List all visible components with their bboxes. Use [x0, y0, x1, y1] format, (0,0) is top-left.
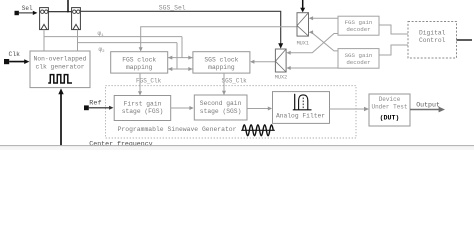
block Second gain stage (SGS): [194, 95, 247, 120]
svg-text:Second gain: Second gain: [200, 100, 242, 107]
svg-text:clk generator: clk generator: [35, 63, 84, 70]
bottom separator line: [0, 146, 474, 150]
wire phi2 to both mapping boxes (arrows both ends): [168, 67, 193, 71]
node Clk input terminal: [4, 51, 20, 64]
svg-text:Ref: Ref: [89, 100, 101, 108]
wire FGS decoder lower output crossing down to MUX2 top input: [286, 34, 338, 55]
svg-text:First gain: First gain: [124, 101, 162, 108]
flip-flop DFF1: [40, 8, 49, 30]
svg-text:SGS gain: SGS gain: [345, 52, 373, 59]
svg-text:decoder: decoder: [346, 26, 370, 33]
wire FGS decoder to MUX1 top input: [309, 16, 338, 20]
node Output: [410, 102, 445, 113]
wire FGS decoder to Digital Control: [379, 25, 408, 34]
svg-text:FGS gain: FGS gain: [345, 19, 373, 26]
wire FGS_Clk to first gain stage: [138, 73, 142, 96]
node Ref input terminal: [84, 100, 102, 111]
wire phi1 vertical from generator to DFF1 clock: [43, 30, 45, 51]
svg-text:MUX1: MUX1: [297, 41, 309, 47]
svg-text:SGS clock: SGS clock: [204, 57, 238, 64]
mux MUX2: [275, 49, 287, 80]
wire first to second gain stage: [171, 106, 194, 110]
svg-text:mapping: mapping: [126, 64, 153, 71]
block SGS clock mapping: [193, 52, 250, 73]
svg-text:Analog Filter: Analog Filter: [276, 113, 325, 120]
wire phi2 vertical from generator to DFF2 clock: [77, 30, 79, 51]
block Digital Control (dashed): [408, 22, 457, 59]
svg-text:stage (FGS): stage (FGS): [122, 108, 164, 115]
wire Sel to DFF1 with arrow: [19, 11, 38, 15]
block SGS gain decoder: [338, 49, 379, 69]
wire Clk to generator with arrow: [9, 59, 29, 64]
wire SGS decoder upper output crossing up to MUX1 bottom input: [309, 30, 338, 51]
wire phi1 horizontal: [44, 36, 182, 38]
wire SGS decoder to MUX2 bottom input: [286, 66, 338, 70]
wire MUX1 select from top edge: [300, 0, 305, 12]
flip-flop DFF2: [72, 8, 81, 30]
wire analog filter to DUT: [330, 107, 370, 112]
wire junction vertical to top edge: [67, 0, 69, 12]
wire phi1 down between mapping boxes: [181, 37, 183, 58]
wire SGS_Clk to second gain stage: [222, 73, 226, 95]
svg-text:Control: Control: [419, 37, 446, 44]
wire phi2 horizontal: [78, 42, 178, 44]
svg-text:FGS clock: FGS clock: [122, 57, 156, 64]
svg-text:MUX2: MUX2: [275, 74, 287, 80]
block FGS gain decoder: [338, 16, 379, 35]
wire SGS_Sel from DFF2 to MUX2 select: [80, 11, 283, 48]
svg-text:Device: Device: [379, 96, 401, 103]
wire Digital Control output right: [457, 39, 473, 41]
svg-text:Digital: Digital: [419, 30, 446, 37]
block FGS clock mapping: [111, 52, 168, 73]
block Device Under Test (DUT): [369, 94, 410, 126]
sine wave icon: [241, 125, 275, 136]
wire DFF1 Q to DFF2 D: [48, 11, 71, 13]
svg-text:Sel: Sel: [22, 5, 33, 12]
svg-text:Under Test: Under Test: [371, 104, 407, 111]
svg-text:SGS_Clk: SGS_Clk: [222, 77, 248, 84]
block Analog Filter: [273, 92, 330, 124]
svg-text:Programmable Sinewave Generato: Programmable Sinewave Generator: [118, 126, 237, 133]
wire phi2 down between mapping boxes: [176, 43, 178, 69]
wire MUX2 output to SGS clock mapping: [250, 60, 275, 64]
wire Center frequency into clk generator: [58, 88, 63, 145]
svg-text:stage (SGS): stage (SGS): [200, 108, 242, 115]
square wave icon: [48, 75, 72, 83]
wire Ref to first gain stage: [89, 106, 114, 110]
svg-text:decoder: decoder: [346, 59, 370, 66]
svg-text:Clk: Clk: [9, 51, 21, 58]
bandpass filter icon: [293, 94, 312, 110]
block First gain stage (FGS): [114, 96, 171, 121]
svg-text:SGS_Sel: SGS_Sel: [159, 5, 186, 12]
wire MUX1 output to FGS clock mapping: [139, 27, 297, 52]
mux MUX1: [297, 13, 309, 47]
wire second gain stage to analog filter: [247, 107, 272, 111]
svg-text:Non-overlapped: Non-overlapped: [34, 56, 87, 63]
svg-text:Output: Output: [416, 102, 440, 109]
node Sel input terminal: [15, 5, 34, 15]
wire SGS decoder to Digital Control: [379, 45, 408, 55]
svg-text:mapping: mapping: [208, 64, 235, 71]
block Programmable Sinewave Generator (dashed): [106, 86, 357, 138]
wire phi1 to both mapping boxes (arrows both ends): [168, 56, 193, 60]
svg-text:(DUT): (DUT): [380, 115, 400, 122]
block Non-overlapped clk generator: [30, 51, 90, 88]
